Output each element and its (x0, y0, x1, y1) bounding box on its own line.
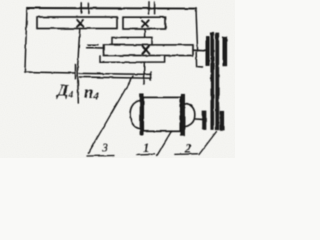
motor shaft (195, 118, 202, 120)
bearing ticks on top line right (149, 2, 155, 14)
svg-text:2: 2 (184, 141, 191, 155)
motor right end cap (185, 103, 195, 126)
cone pulley top flange right (223, 37, 227, 66)
motor pulley flange left (203, 111, 206, 130)
bearing tick on left vertical shaft (75, 65, 77, 79)
vertical shaft left (78, 29, 80, 104)
bearing ticks on top line left (81, 3, 88, 14)
gear cross X2 (142, 20, 148, 27)
clutch stub line (97, 47, 104, 49)
wire housing right side (196, 9, 198, 51)
clutch double dash (87, 45, 98, 48)
middle shaft to pulley (193, 49, 206, 52)
gear box B (123, 17, 166, 29)
cone pulley top flange left (206, 37, 209, 66)
wire housing top line (27, 7, 196, 10)
wire right lower bracket (196, 52, 203, 67)
lower bracket of middle gear cluster (100, 56, 165, 63)
motor left end cap (130, 101, 140, 129)
gear box A (37, 17, 117, 29)
underline for 3 (87, 155, 114, 158)
gear cross X1 (77, 20, 83, 27)
underline for 1 (137, 153, 155, 156)
wire housing left side (25, 8, 27, 72)
bearing tick right of center vertical shaft (150, 72, 152, 81)
motor right flange (181, 94, 185, 135)
vertical shaft center lower segment (143, 62, 145, 84)
leader line 3 (88, 76, 133, 153)
vertical shaft center upper segment (144, 29, 146, 37)
motor left flange (140, 94, 143, 135)
belt run right (216, 33, 219, 130)
upper bracket of middle gear cluster (112, 37, 152, 45)
middle gear box (104, 45, 194, 56)
motor pulley flange right (220, 111, 224, 130)
motor body (143, 97, 181, 131)
belt run left (211, 33, 214, 130)
belt double line between vertical shafts (80, 73, 152, 78)
wire housing bottom-left shaft line (25, 72, 76, 73)
gear cross X3 (142, 46, 149, 54)
leader line 1 (157, 131, 172, 156)
underline for 2 (175, 153, 198, 156)
svg-text:1: 1 (143, 141, 149, 155)
leader line 2 (199, 132, 217, 155)
paper noise (0, 0, 235, 158)
svg-text:3: 3 (101, 141, 108, 155)
